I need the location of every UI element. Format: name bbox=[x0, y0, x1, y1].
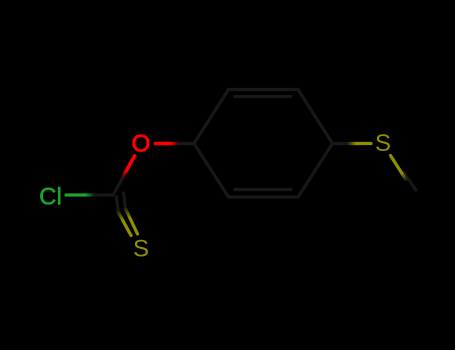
svg-text:Cl: Cl bbox=[39, 184, 62, 211]
svg-text:S: S bbox=[375, 130, 391, 157]
svg-text:O: O bbox=[132, 131, 151, 158]
svg-text:S: S bbox=[133, 236, 149, 263]
